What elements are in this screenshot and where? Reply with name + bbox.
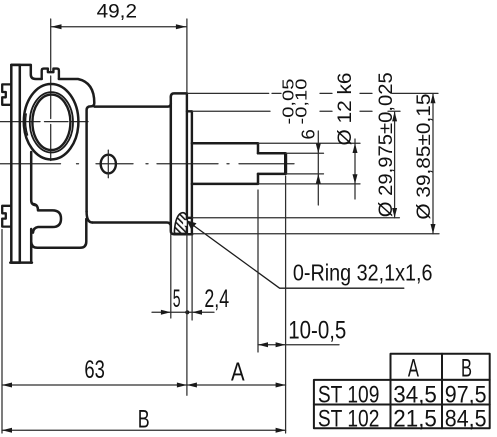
bolt hole vertical center line xyxy=(107,150,109,178)
svg-text:10-0,5: 10-0,5 xyxy=(288,317,346,345)
body top plateau and right bulge fillet xyxy=(59,79,94,212)
tang top extension xyxy=(286,152,324,154)
spigot top extension line (Ø29,975 top) xyxy=(193,110,401,112)
dimension 10-0,5 xyxy=(258,176,339,433)
O-ring leader line xyxy=(188,222,404,289)
dimension Ø29,975 line xyxy=(394,112,396,218)
drive tang outline xyxy=(258,153,286,174)
spigot lip 2,4 xyxy=(187,111,192,234)
flange disc (mounting flange) xyxy=(171,93,192,234)
shaft outline xyxy=(192,143,258,184)
body lower-left edge xyxy=(31,152,36,205)
port bore rim outer xyxy=(30,92,73,152)
svg-text:Ø 29,975±0,025: Ø 29,975±0,025 xyxy=(375,72,397,217)
svg-text:5: 5 xyxy=(173,286,181,313)
mounting tab bottom xyxy=(2,206,11,227)
shaft top extension xyxy=(258,142,360,144)
svg-text:2,4: 2,4 xyxy=(204,286,229,313)
svg-text:0-Ring 32,1x1,6: 0-Ring 32,1x1,6 xyxy=(293,260,433,286)
O-ring section hatched xyxy=(174,213,186,234)
table frame xyxy=(314,354,490,429)
svg-text:A: A xyxy=(231,357,245,387)
boss center line horizontal xyxy=(0,121,88,123)
svg-text:Ø 12 k6: Ø 12 k6 xyxy=(334,73,356,146)
dimension Ø39,85 line xyxy=(432,94,434,234)
vertical text 6 with tolerances xyxy=(281,78,319,139)
bulge-to-shelf bottom fillet xyxy=(87,212,93,223)
dimension 49,2 xyxy=(51,19,187,93)
svg-text:84,5: 84,5 xyxy=(445,406,487,433)
dimension 5 / 2,4 xyxy=(152,235,214,321)
flange top extension line (Ø39,85 top) xyxy=(188,92,438,94)
spigot bottom extension line xyxy=(193,217,400,219)
svg-text:ST 109: ST 109 xyxy=(318,382,380,409)
svg-text:B: B xyxy=(138,406,150,434)
dimension 6 -0,05/-0,10 line xyxy=(317,131,319,205)
dimension Ø12k6 line xyxy=(354,139,356,199)
O-ring leader arrowhead xyxy=(187,220,197,229)
svg-text:6: 6 xyxy=(298,129,319,139)
svg-text:21,5: 21,5 xyxy=(393,406,437,433)
flange plate (rear mounting plate) xyxy=(11,65,19,263)
body shelf bottom edge xyxy=(92,223,171,227)
body top-left shoulder xyxy=(11,65,41,79)
body foot outline xyxy=(31,219,86,263)
svg-text:Ø 39,85±0,15: Ø 39,85±0,15 xyxy=(413,93,435,219)
mounting tab top xyxy=(2,84,11,104)
body/flange bottom edge xyxy=(10,261,32,264)
svg-text:B: B xyxy=(461,355,472,383)
svg-text:34,5: 34,5 xyxy=(393,382,437,409)
boss center line vertical / 49,2 left extension xyxy=(50,19,52,161)
port boss outer chamfer arc xyxy=(26,114,28,135)
tang bottom extension xyxy=(286,173,324,175)
bolt hole circle xyxy=(101,155,116,174)
svg-text:A: A xyxy=(408,355,419,383)
svg-text:63: 63 xyxy=(84,356,105,384)
top lug with notch xyxy=(42,69,59,79)
flange mounting face line xyxy=(186,93,188,234)
flange bottom extension line xyxy=(194,233,440,235)
dimension 63 / A xyxy=(2,230,286,434)
tang end face thick edge xyxy=(284,154,287,173)
port bore rim inner xyxy=(32,95,70,150)
rib tongue with rounded tip xyxy=(33,204,61,233)
main axis center line xyxy=(0,163,294,165)
svg-text:-0,10: -0,10 xyxy=(294,78,311,124)
dimension B xyxy=(2,429,286,431)
svg-text:ST 102: ST 102 xyxy=(318,406,380,433)
svg-text:97,5: 97,5 xyxy=(445,382,487,409)
body shelf top edge xyxy=(95,104,171,107)
shaft bottom extension xyxy=(258,183,360,185)
port boss outer ring xyxy=(24,84,79,160)
svg-text:49,2: 49,2 xyxy=(97,2,137,23)
